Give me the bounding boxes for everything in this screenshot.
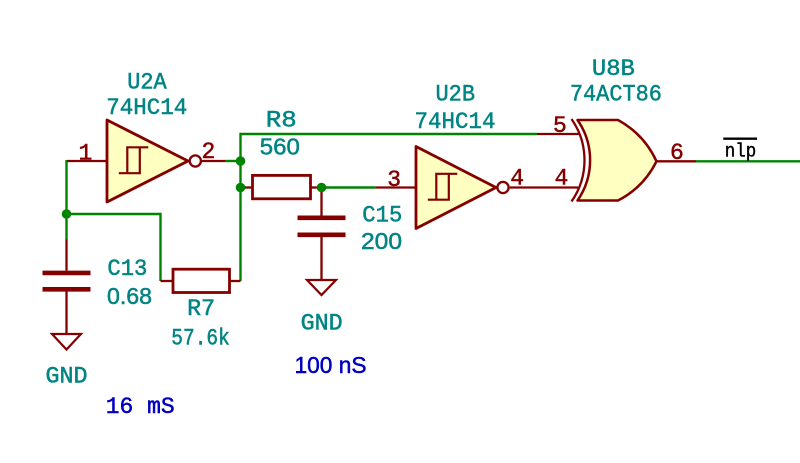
svg-text:R8: R8 bbox=[266, 108, 297, 134]
resistor R7 bbox=[161, 269, 241, 292]
svg-text:GND: GND bbox=[46, 364, 88, 390]
junction bbox=[317, 183, 327, 193]
inverter U2B bbox=[376, 147, 578, 229]
svg-text:1: 1 bbox=[79, 141, 93, 167]
svg-text:R7: R7 bbox=[187, 296, 215, 322]
wire bbox=[241, 186, 247, 188]
junction bbox=[236, 183, 246, 193]
capacitor C15 bbox=[298, 190, 346, 280]
svg-text:6: 6 bbox=[670, 140, 684, 166]
wire bbox=[226, 160, 241, 162]
svg-text:nlp: nlp bbox=[725, 141, 757, 163]
wire bbox=[67, 214, 161, 281]
svg-text:C13: C13 bbox=[107, 256, 147, 282]
wire bbox=[696, 160, 800, 162]
svg-text:3: 3 bbox=[387, 167, 401, 193]
overline nlp bbox=[723, 138, 757, 140]
svg-text:560: 560 bbox=[260, 133, 300, 159]
svg-text:GND: GND bbox=[301, 311, 343, 337]
svg-text:U8B: U8B bbox=[592, 56, 635, 82]
junction bbox=[62, 209, 72, 219]
svg-text:C15: C15 bbox=[362, 203, 402, 229]
wire bbox=[241, 134, 538, 281]
wire bbox=[320, 186, 376, 188]
wire bbox=[65, 160, 67, 240]
junction bbox=[236, 156, 246, 166]
svg-text:74HC14: 74HC14 bbox=[106, 95, 187, 121]
svg-text:4: 4 bbox=[555, 165, 569, 191]
svg-text:0.68: 0.68 bbox=[107, 283, 152, 309]
svg-text:74ACT86: 74ACT86 bbox=[570, 82, 662, 108]
svg-text:16 mS: 16 mS bbox=[106, 394, 175, 420]
svg-text:2: 2 bbox=[202, 139, 216, 165]
svg-text:200: 200 bbox=[361, 228, 402, 254]
inverter U2A bbox=[67, 120, 226, 202]
ground GND2 bbox=[307, 280, 336, 295]
resistor R8 bbox=[242, 175, 320, 198]
svg-text:4: 4 bbox=[510, 165, 524, 191]
svg-text:57.6k: 57.6k bbox=[171, 325, 230, 351]
svg-text:U2B: U2B bbox=[436, 82, 476, 108]
svg-text:100 nS: 100 nS bbox=[295, 352, 367, 378]
capacitor C13 bbox=[43, 240, 91, 335]
svg-text:U2A: U2A bbox=[127, 70, 167, 96]
svg-text:74HC14: 74HC14 bbox=[415, 109, 496, 135]
svg-text:5: 5 bbox=[553, 113, 567, 139]
ground GND1 bbox=[52, 334, 81, 350]
xor gate U8B bbox=[537, 119, 696, 202]
